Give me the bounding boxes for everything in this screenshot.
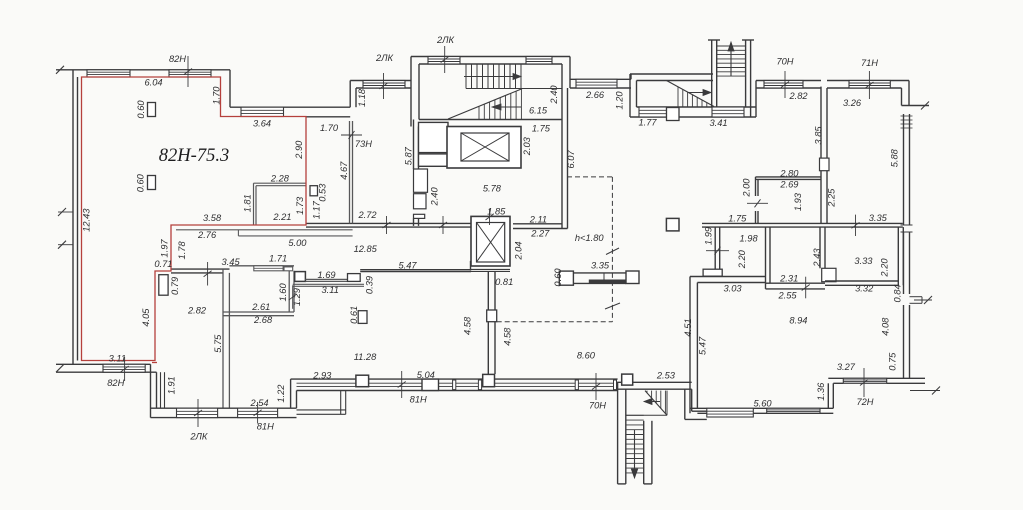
svg-text:h<1.80: h<1.80: [575, 233, 605, 243]
svg-text:2.82: 2.82: [187, 305, 207, 315]
svg-text:3.35: 3.35: [869, 213, 888, 223]
svg-text:2.53: 2.53: [656, 370, 676, 380]
svg-text:2ЛК: 2ЛК: [436, 35, 455, 45]
svg-text:2.61: 2.61: [251, 302, 270, 312]
svg-text:5.00: 5.00: [288, 238, 307, 248]
svg-text:2.80: 2.80: [779, 168, 799, 178]
svg-text:5.87: 5.87: [404, 146, 414, 165]
svg-text:4.58: 4.58: [503, 327, 513, 346]
svg-text:1.75: 1.75: [728, 213, 747, 223]
svg-text:2.20: 2.20: [879, 258, 889, 278]
svg-text:2.25: 2.25: [826, 188, 836, 208]
svg-text:2.72: 2.72: [357, 210, 377, 220]
svg-text:6.15: 6.15: [529, 105, 548, 115]
svg-text:4.58: 4.58: [463, 316, 473, 335]
svg-text:2.31: 2.31: [779, 274, 798, 284]
svg-text:1.78: 1.78: [177, 241, 187, 260]
svg-text:2ЛК: 2ЛК: [375, 53, 394, 63]
svg-text:2.43: 2.43: [812, 248, 822, 268]
svg-text:5.75: 5.75: [213, 334, 223, 353]
svg-text:2ЛК: 2ЛК: [189, 432, 208, 442]
svg-text:70Н: 70Н: [589, 400, 606, 410]
svg-text:1.75: 1.75: [532, 123, 551, 133]
svg-text:0.81: 0.81: [495, 277, 513, 287]
svg-text:3.26: 3.26: [843, 98, 862, 108]
svg-text:81Н: 81Н: [410, 395, 427, 405]
svg-text:82Н: 82Н: [107, 378, 124, 388]
svg-text:73Н: 73Н: [355, 139, 372, 149]
svg-text:3.58: 3.58: [203, 213, 222, 223]
svg-text:0.60: 0.60: [553, 268, 563, 287]
svg-text:1.71: 1.71: [269, 253, 287, 263]
svg-text:2.66: 2.66: [585, 90, 605, 100]
svg-text:12.43: 12.43: [82, 208, 92, 232]
svg-text:70Н: 70Н: [776, 56, 793, 66]
svg-text:2.27: 2.27: [530, 228, 550, 238]
svg-text:4.08: 4.08: [880, 317, 890, 336]
svg-text:3.85: 3.85: [813, 126, 823, 145]
svg-text:0.71: 0.71: [154, 259, 172, 269]
svg-text:3.03: 3.03: [723, 284, 742, 294]
svg-text:3.33: 3.33: [854, 256, 873, 266]
svg-text:1.36: 1.36: [816, 382, 826, 401]
svg-text:4.05: 4.05: [141, 308, 151, 327]
svg-text:3.11: 3.11: [109, 353, 126, 363]
svg-text:5.04: 5.04: [417, 370, 435, 380]
svg-text:4.51: 4.51: [683, 318, 693, 336]
svg-text:1.17: 1.17: [311, 200, 321, 219]
svg-text:82Н-75.3: 82Н-75.3: [159, 146, 229, 166]
svg-text:1.77: 1.77: [638, 117, 657, 127]
svg-text:2.93: 2.93: [312, 370, 332, 380]
svg-text:1.22: 1.22: [276, 384, 286, 403]
svg-text:2.90: 2.90: [294, 140, 304, 160]
svg-text:2.40: 2.40: [430, 187, 440, 207]
svg-text:2.04: 2.04: [514, 241, 524, 260]
svg-text:1.81: 1.81: [242, 194, 252, 212]
svg-text:2.11: 2.11: [529, 214, 547, 224]
svg-text:5.47: 5.47: [698, 336, 708, 355]
svg-text:1.69: 1.69: [317, 270, 335, 280]
svg-text:2.55: 2.55: [777, 290, 797, 300]
svg-text:1.20: 1.20: [614, 91, 624, 110]
svg-text:3.41: 3.41: [709, 118, 727, 128]
svg-text:2.68: 2.68: [253, 315, 273, 325]
svg-text:2.82: 2.82: [788, 91, 808, 101]
svg-text:0.53: 0.53: [318, 183, 328, 202]
svg-text:2.40: 2.40: [549, 85, 559, 105]
svg-text:2.21: 2.21: [272, 212, 291, 222]
svg-text:2.54: 2.54: [249, 398, 268, 408]
svg-text:1.93: 1.93: [793, 192, 803, 211]
svg-text:0.39: 0.39: [364, 276, 374, 294]
svg-text:72Н: 72Н: [856, 397, 873, 407]
svg-text:1.70: 1.70: [320, 123, 339, 133]
svg-text:0.79: 0.79: [170, 277, 180, 295]
svg-text:2.76: 2.76: [197, 230, 217, 240]
svg-text:1.98: 1.98: [740, 234, 759, 244]
svg-text:71Н: 71Н: [861, 58, 878, 68]
svg-text:1.97: 1.97: [159, 239, 169, 258]
svg-text:0.84: 0.84: [893, 284, 903, 302]
svg-text:81Н: 81Н: [257, 422, 274, 432]
svg-text:1.73: 1.73: [295, 196, 305, 215]
svg-text:5.60: 5.60: [753, 399, 772, 409]
svg-text:3.35: 3.35: [591, 260, 610, 270]
svg-text:1.60: 1.60: [278, 283, 288, 302]
svg-text:3.45: 3.45: [222, 257, 241, 267]
svg-text:1.91: 1.91: [166, 376, 176, 394]
svg-text:8.60: 8.60: [577, 350, 596, 360]
svg-text:5.88: 5.88: [890, 148, 900, 167]
svg-text:1.99: 1.99: [703, 227, 713, 245]
svg-text:6.04: 6.04: [144, 77, 162, 87]
svg-text:1.29: 1.29: [292, 288, 302, 306]
svg-text:1.70: 1.70: [212, 86, 222, 105]
svg-text:1.18: 1.18: [357, 88, 367, 107]
svg-text:0.61: 0.61: [349, 306, 359, 324]
svg-text:2.28: 2.28: [270, 173, 290, 183]
svg-text:1.85: 1.85: [487, 207, 506, 217]
svg-text:3.11: 3.11: [321, 285, 338, 295]
svg-text:0.60: 0.60: [136, 173, 146, 192]
svg-text:5.78: 5.78: [483, 183, 502, 193]
svg-text:3.64: 3.64: [253, 118, 271, 128]
svg-text:0.75: 0.75: [888, 352, 898, 371]
svg-text:4.67: 4.67: [339, 161, 349, 180]
svg-text:6.07: 6.07: [566, 150, 576, 169]
svg-text:5.47: 5.47: [398, 260, 417, 270]
svg-text:2.20: 2.20: [737, 249, 747, 269]
svg-text:0.60: 0.60: [136, 100, 146, 119]
svg-text:2.03: 2.03: [522, 136, 532, 156]
svg-text:11.28: 11.28: [354, 352, 377, 362]
svg-text:82Н: 82Н: [169, 54, 186, 64]
svg-text:3.27: 3.27: [837, 362, 856, 372]
svg-text:2.69: 2.69: [779, 180, 798, 190]
svg-text:12.85: 12.85: [354, 244, 378, 254]
svg-text:3.32: 3.32: [855, 284, 874, 294]
svg-text:8.94: 8.94: [789, 315, 807, 325]
svg-text:2.00: 2.00: [742, 178, 752, 198]
